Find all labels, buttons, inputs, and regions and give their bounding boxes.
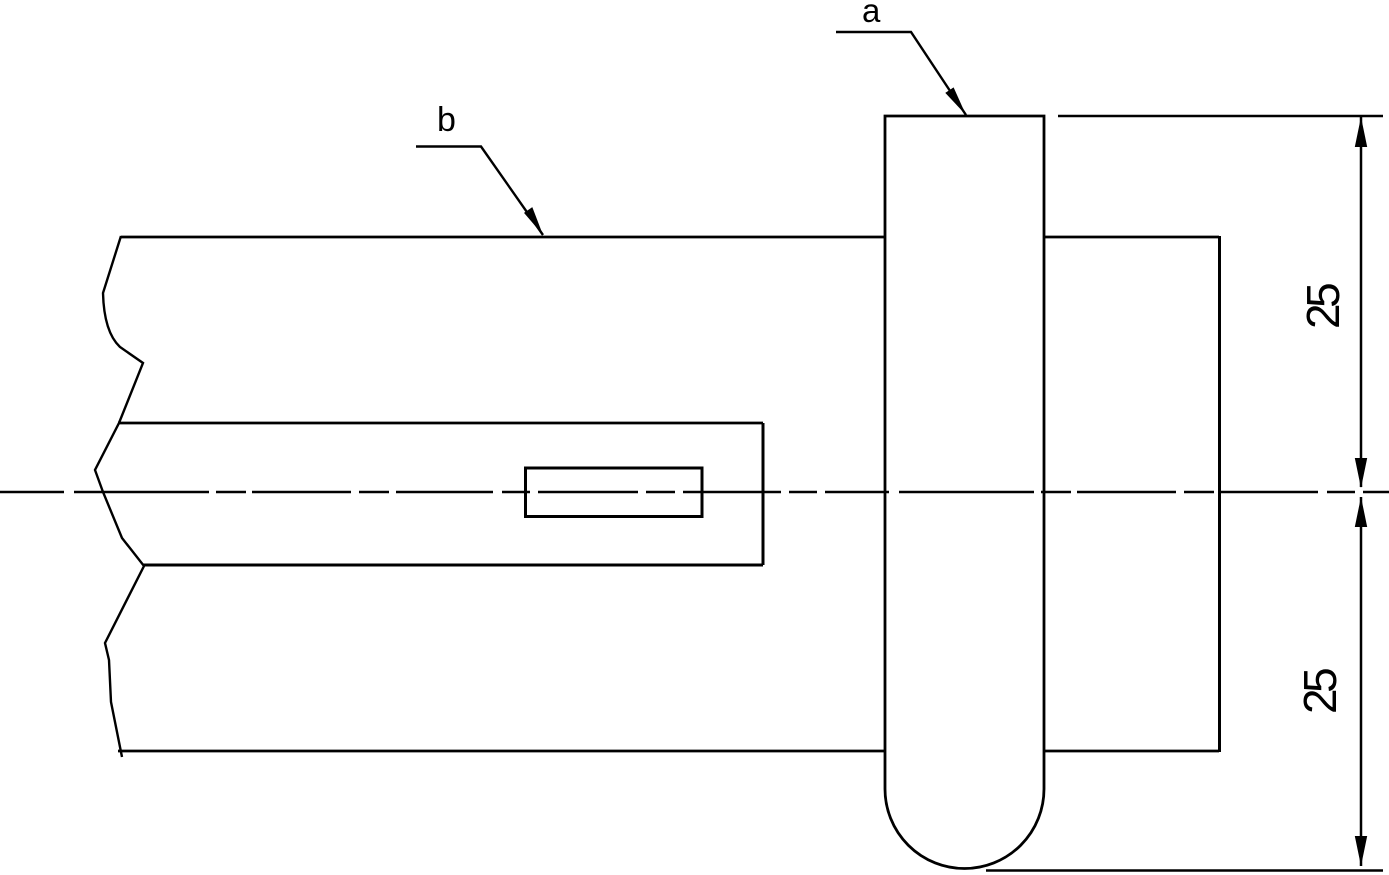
dimension line lower 25 (1360, 497, 1363, 866)
shaft right end face (1218, 236, 1221, 752)
leader line b (416, 147, 543, 236)
arrowhead dim bottom (down) (1355, 836, 1367, 866)
svg-text:a: a (862, 0, 881, 29)
svg-text:25: 25 (1297, 284, 1349, 329)
shaft top edge (left of cutter) (121, 236, 885, 239)
shaft bottom edge (left of cutter) (118, 750, 885, 753)
arrowhead leader b (524, 207, 543, 235)
leader line a (836, 32, 966, 115)
bottom extension line (986, 869, 1383, 872)
shaft bottom edge (right of cutter) (1044, 750, 1219, 753)
keyway slot top edge (118, 422, 763, 425)
shaft top edge (right of cutter) (1044, 236, 1219, 239)
arrowhead dim lower-top (up) (1355, 497, 1367, 527)
arrowhead dim top (up) (1355, 117, 1367, 147)
arrowhead dim upper-bottom (down) (1355, 458, 1367, 488)
svg-text:b: b (437, 101, 456, 139)
arrowhead leader a (945, 87, 966, 115)
milling cutter a (vertical tool with round bottom) (885, 116, 1044, 869)
top extension line (1058, 115, 1383, 118)
key (inner rectangle) (526, 468, 703, 517)
centerline (shaft axis, dash-dot) (0, 491, 1389, 494)
keyway slot bottom edge (143, 564, 763, 567)
break line (left zigzag) (95, 236, 144, 757)
svg-text:25: 25 (1294, 669, 1346, 714)
keyway slot right end (762, 423, 765, 565)
dimension line upper 25 (1360, 117, 1363, 487)
